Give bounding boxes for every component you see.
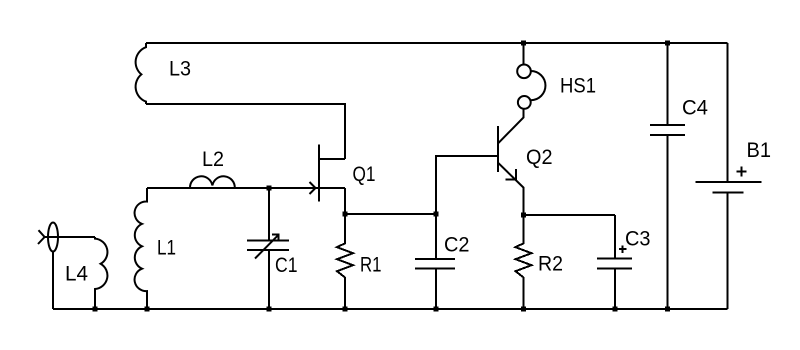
svg-text:Q1: Q1 [353,163,376,186]
capacitor C2 plates [415,258,455,260]
transistor Q2 base bar [497,126,499,172]
capacitor C4 lower lead [667,135,669,309]
junction dot C1 bottom [267,307,272,312]
transistor Q1 source lead [344,188,346,214]
wire antenna down lead [52,252,54,310]
battery B1 plus sign [737,170,747,172]
svg-text:L1: L1 [157,237,176,260]
inductor L3 [136,43,146,104]
capacitor C1 upper lead [268,188,270,241]
inductor L2 [190,176,235,188]
junction dot L4 bottom [93,307,98,312]
capacitor C2 lower lead [435,269,437,310]
capacitor C3 lower lead [614,269,616,310]
capacitor C1 plates [247,240,289,242]
transistor Q1 drain lead [319,158,345,160]
battery B1 bottom lead [727,193,729,310]
svg-text:R2: R2 [538,253,563,276]
antenna arrow chevron [38,230,45,244]
junction dot C3 bottom [613,307,618,312]
battery B1 long plate [696,181,762,183]
junction dot C4 top rail [665,41,670,46]
wire C2 column to Q2 base [436,156,498,214]
capacitor C3 plates [597,258,632,260]
junction dot C2 bottom [434,307,439,312]
antenna lead wire [44,236,95,238]
transistor Q2 collector [498,109,524,144]
capacitor C1 lower lead [268,250,270,309]
junction dot R1 bottom [343,307,348,312]
junction dot Q2 emitter [521,213,526,218]
wire bottom rail [53,308,728,310]
svg-text:L4: L4 [65,263,88,286]
battery B1 short plate [713,192,744,194]
transistor Q1 gate arrow [310,182,316,194]
wire Q1 source to C2 [345,213,436,215]
junction dot HS1 top rail [521,41,526,46]
junction dot C4 bottom [665,307,670,312]
capacitor C1 arrow [255,235,278,258]
battery B1 top lead [727,43,729,182]
junction dot L1 bottom [145,307,150,312]
svg-text:L3: L3 [169,58,191,81]
capacitor C3 upper lead [614,215,616,259]
headset HS1 top circle [517,65,531,79]
inductor L1 [135,188,147,309]
svg-text:R1: R1 [360,254,382,277]
svg-text:B1: B1 [747,139,772,162]
wire L3 bottom to Q1 drain [146,104,345,159]
capacitor C4 plates [650,124,685,126]
svg-text:C2: C2 [444,234,470,257]
capacitor C4 upper lead [667,43,669,125]
junction dot Q1 source [343,212,348,217]
headset HS1 top lead [523,43,525,65]
svg-text:Q2: Q2 [526,146,553,169]
svg-text:HS1: HS1 [560,75,596,98]
inductor L4 [95,237,107,309]
junction dot R2 bottom [521,307,526,312]
svg-text:C3: C3 [625,228,651,251]
transistor Q1 channel bar [318,145,320,202]
headset HS1 arc [531,71,546,100]
wire top rail [146,42,728,44]
svg-text:C1: C1 [275,254,298,277]
transistor Q2 emitter [498,163,524,215]
svg-text:L2: L2 [202,148,224,171]
wire Q2 emitter to C3 [524,214,616,216]
headset HS1 bottom circle [518,96,531,109]
antenna symbol [48,223,58,252]
resistor R1 [337,243,353,277]
wire gate net (L1 top / L2 / C1 / Q1 gate) [147,187,345,189]
resistor R2 [516,243,532,277]
capacitor C2 upper lead [435,214,437,259]
capacitor C3 plus sign [619,248,627,250]
junction dot C2 top [434,212,439,217]
transistor Q2 emitter arrow [505,169,516,179]
svg-text:C4: C4 [682,97,708,120]
junction dot C1 top [267,186,272,191]
